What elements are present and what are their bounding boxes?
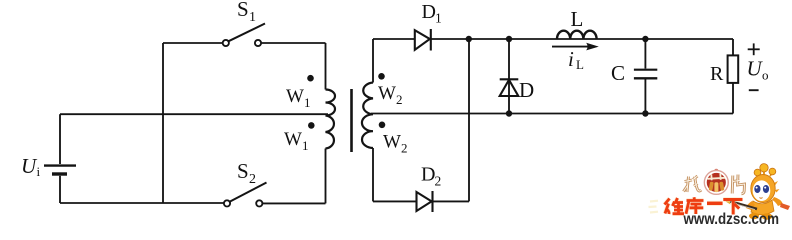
svg-text:www.dzsc.com: www.dzsc.com [683,211,779,227]
switch S1 [163,24,326,47]
junction dot C top [642,36,648,42]
inductor L [557,31,597,39]
polarity dot primary bottom [308,122,315,129]
wire: battery - bottom rail [60,202,224,204]
polarity dot secondary top [378,73,385,80]
face [753,180,771,201]
body [751,200,774,215]
svg-text:U: U [21,154,38,178]
pen/sword [729,201,757,209]
wire: C branch lower [644,80,646,114]
mouth [760,197,763,200]
svg-text:1: 1 [304,95,311,110]
output - sign [749,89,759,91]
feet [749,213,759,219]
wire: D2 riser up to top rail (crosses return rail) [468,39,470,201]
wire: secondary bottom vertical [372,148,374,201]
mascot robot [726,164,791,220]
junction dot D2/top rail [466,36,472,42]
text 一 (red) [707,201,723,206]
polarity dot secondary bottom [379,122,386,129]
text 片 (stylized) [732,175,744,194]
svg-text:2: 2 [396,92,403,107]
wire: top rail D1 to R corner [431,38,733,40]
wire: R to bottom rail [732,83,734,114]
label W1 bottom [284,129,309,153]
svg-text:S: S [237,0,249,21]
wire: freewheeling diode branch vertical [508,39,510,114]
text www.dzsc.com [683,211,779,228]
label W2 top [378,83,403,107]
svg-text:i: i [37,164,41,179]
label W2 bottom [383,132,408,156]
svg-text:R: R [710,63,724,85]
wire: S2 to winding bottom [325,149,327,204]
wire: left vertical (switch common) [162,43,164,203]
text 下 (red) [723,200,742,215]
text 库 (red) [686,197,704,214]
junction dot C bottom [642,110,648,116]
eyes [754,185,760,193]
svg-text:L: L [576,57,584,72]
svg-text:1: 1 [302,138,309,153]
right arm [772,197,783,206]
wire: S1 to winding top [325,43,327,90]
svg-text:W: W [378,83,396,104]
transformer primary winding W1/W1 [326,90,336,149]
output + sign [748,43,760,55]
svg-text:C: C [611,61,625,85]
wire: battery + to primary center tap [60,113,328,115]
text 维 (red) [665,198,685,214]
label R [710,63,724,85]
svg-text:D: D [519,78,534,102]
svg-text:W: W [286,86,304,107]
label D [519,78,534,102]
svg-text:i: i [568,47,574,71]
svg-text:D: D [422,1,436,23]
label W1 top [286,86,311,110]
svg-text:L: L [571,7,584,31]
svg-text:1: 1 [435,11,442,26]
label S1 [237,0,256,25]
wire: secondary bottom to D2 anode [373,200,417,202]
crown stalks [755,170,773,180]
svg-text:1: 1 [249,10,256,25]
junction dot D bottom [506,110,512,116]
label L [571,7,584,31]
svg-text:o: o [762,68,769,83]
polarity dot primary top [307,75,314,82]
svg-text:W: W [383,132,401,153]
text 找 (stylized, white w/ tan outline) [684,176,702,192]
svg-text:2: 2 [401,141,408,156]
head helmet [774,181,780,193]
pale glow ticks left of 维 [649,201,659,213]
label D1 [422,1,442,26]
junction dot D top [506,36,512,42]
svg-text:2: 2 [435,174,442,189]
watermark logo [649,164,791,228]
left arm holding pen [746,201,755,210]
label Uo [747,56,769,82]
wire: secondary top vertical [372,39,374,83]
red circle logo with 芯 [704,169,728,195]
svg-text:W: W [284,129,302,150]
battery U_i [44,114,76,203]
diode D2 [417,191,433,212]
wire: top rail corner down to R [732,39,734,55]
svg-text:D: D [421,163,435,185]
crown balls [754,169,761,176]
svg-text:S: S [237,159,249,183]
bottom output rail / center tap return [371,113,733,115]
label iL [568,47,584,72]
transformer secondary winding W2/W2 [362,83,373,149]
resistor R [728,55,739,83]
current arrow iL [552,43,599,51]
label C [611,61,625,85]
wire: D2 cathode to riser [433,200,470,202]
diode D (freewheeling) [500,79,519,96]
switch S2 [224,183,326,207]
svg-text:U: U [747,56,764,80]
wire: C branch upper [644,39,646,69]
capacitor C [634,70,657,79]
wire: top rail to D1 anode [373,38,415,40]
svg-text:2: 2 [249,172,256,187]
transformer core [350,89,353,152]
label D2 [421,163,441,188]
label S2 [237,159,256,187]
label U_i [21,154,41,179]
diode D1 [415,29,431,51]
